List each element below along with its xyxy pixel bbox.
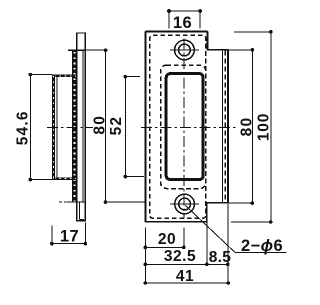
svg-text:17: 17 (60, 228, 79, 246)
svg-text:2−ϕ6: 2−ϕ6 (241, 237, 283, 255)
dim 100 line (270, 32, 272, 222)
lip bottom dashes left (59, 201, 66, 203)
bottom screw hole (175, 194, 195, 214)
svg-text:41: 41 (176, 268, 194, 285)
lip bottom fold line (67, 201, 86, 203)
dim 54.6 line (29, 75, 31, 180)
side plate strip outline (77, 33, 86, 221)
lip hidden fold dashed line (224, 51, 226, 203)
dim 52 line (124, 77, 126, 177)
bottom hole horizontal centerline (170, 203, 199, 205)
box top wall (52, 75, 77, 78)
top screw hole (175, 40, 195, 60)
dim 41 line (145, 282, 228, 284)
dim 80 right line (251, 49, 253, 203)
svg-text:80: 80 (238, 117, 255, 137)
svg-text:54.6: 54.6 (14, 110, 31, 145)
svg-text:80: 80 (92, 115, 109, 135)
dim 16 lines (169, 10, 200, 12)
latch hole thick rect (166, 74, 203, 180)
vertical centerline (183, 39, 185, 219)
side view horizontal centerline (47, 126, 93, 128)
front view horizontal centerline (141, 126, 239, 128)
svg-text:16: 16 (173, 14, 192, 32)
plate surface line in lip region (82, 50, 84, 202)
lip inner edge line (221, 51, 223, 203)
plate outline (146, 32, 229, 222)
svg-text:8.5: 8.5 (209, 249, 232, 266)
lip top fold line (68, 49, 85, 51)
dim 17 lines (51, 225, 53, 244)
svg-text:20: 20 (158, 231, 176, 248)
svg-text:52: 52 (108, 116, 125, 136)
plate inner dashed outline (150, 35, 206, 218)
svg-text:100: 100 (255, 113, 272, 141)
svg-text:32.5: 32.5 (164, 248, 196, 265)
strip inner line bottom (79, 202, 81, 219)
box left wall (52, 75, 55, 180)
dim 32.5 / 8.5 line (145, 263, 228, 265)
box opening dashed rounded rect (161, 65, 206, 189)
box bottom wall (52, 177, 77, 180)
top hole horizontal centerline (170, 49, 199, 51)
lip collar section bar (black with white dashes) (72, 50, 77, 202)
dim 80 left line (105, 50, 107, 202)
box inner wall line (56, 77, 58, 177)
leader 2-phi6 (186, 206, 235, 253)
dimension end dots (29, 9, 273, 285)
dim 20 line (145, 246, 184, 248)
